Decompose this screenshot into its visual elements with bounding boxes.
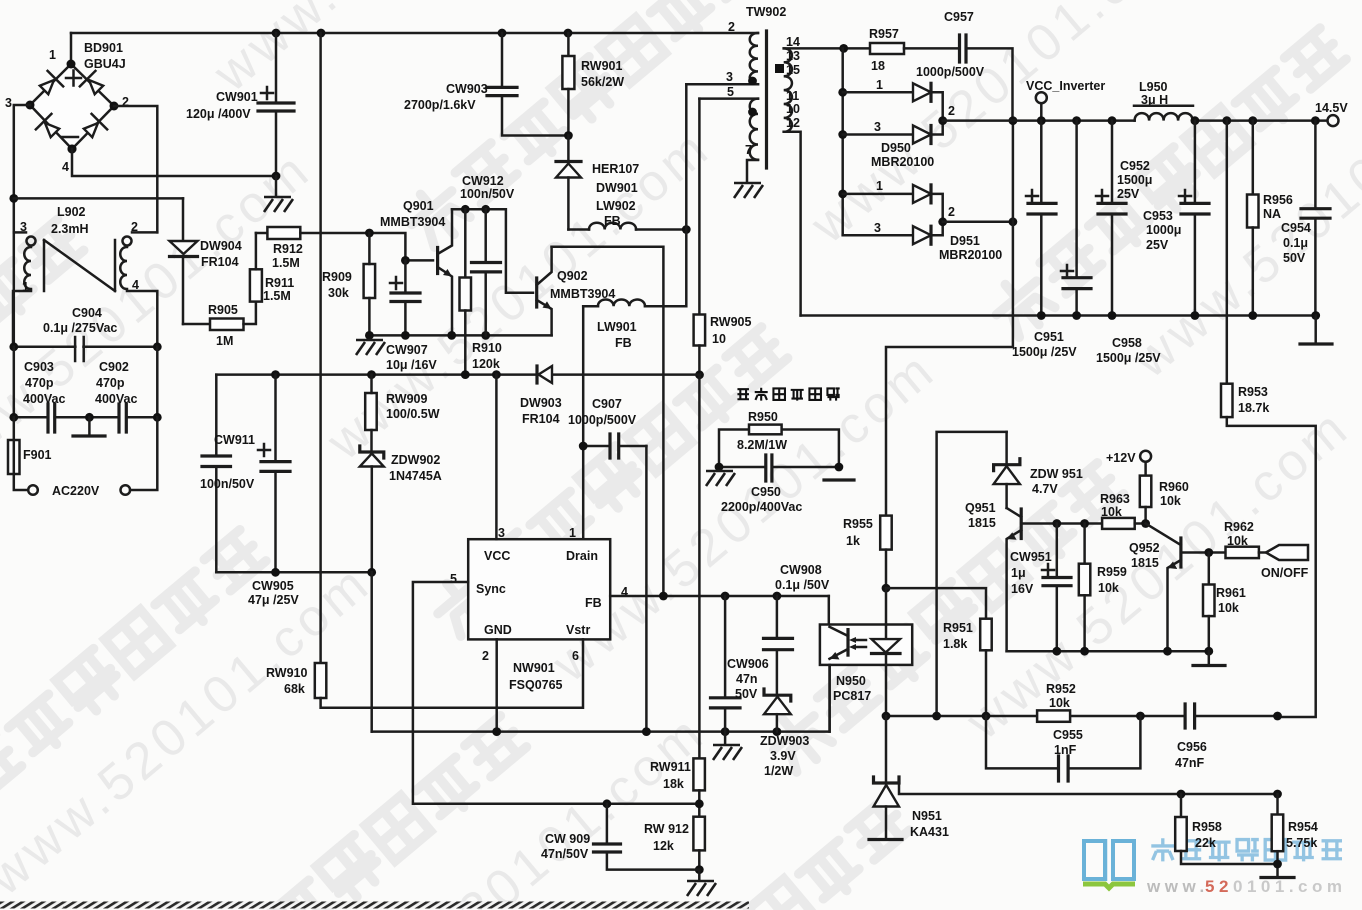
svg-text:Q951: Q951 (965, 501, 996, 515)
svg-text:C953: C953 (1143, 209, 1173, 223)
svg-text:2200p/400Vac: 2200p/400Vac (721, 500, 802, 514)
wire bridge pin2 down (114, 106, 157, 232)
svg-text:R960: R960 (1159, 480, 1189, 494)
optocoupler N950 PC817 (820, 625, 912, 704)
svg-text:LW902: LW902 (596, 199, 636, 213)
capacitor CW909 47n/50V (541, 804, 699, 870)
svg-text:120k: 120k (472, 357, 500, 371)
wire LED anode to R955 (885, 588, 888, 624)
svg-text:R954: R954 (1288, 820, 1318, 834)
node dot gnd row C951 (1037, 311, 1046, 320)
ground C950 right (824, 478, 854, 481)
svg-text:MMBT3904: MMBT3904 (380, 215, 445, 229)
node dot GND row pin2 (492, 727, 501, 736)
resistor RW901 56k/2W (562, 33, 624, 136)
node dot fbrow fbnet (932, 712, 941, 721)
node dot C904 row left (9, 342, 18, 351)
svg-text:ZDW903: ZDW903 (760, 734, 809, 748)
svg-text:CW908: CW908 (780, 563, 822, 577)
svg-text:3: 3 (5, 96, 12, 110)
svg-text:R910: R910 (472, 341, 502, 355)
svg-text:2: 2 (948, 104, 955, 118)
node dot R955 bottom (882, 584, 891, 593)
capacitor C950 2200p/400Vac (719, 455, 839, 514)
svg-text:C952: C952 (1120, 159, 1150, 173)
resistor RW911 18k (650, 375, 705, 817)
svg-text:1N4745A: 1N4745A (389, 469, 442, 483)
svg-text:C956: C956 (1177, 740, 1207, 754)
node dot emitter row R909 (365, 331, 374, 340)
svg-text:R909: R909 (322, 270, 352, 284)
capacitor CW911 100n/50V (200, 375, 255, 573)
svg-text:18: 18 (871, 59, 885, 73)
svg-text:N951: N951 (912, 809, 942, 823)
svg-text:DW901: DW901 (596, 181, 638, 195)
node dot C950 right (835, 463, 844, 472)
node dot R954 bottom (1273, 860, 1282, 869)
wire AC row to DW904 (14, 197, 183, 200)
capacitor CW905 47u/25V (248, 375, 299, 607)
svg-text:Q902: Q902 (557, 269, 588, 283)
connector ON/OFF (1261, 545, 1309, 580)
terminal 14.5V (1315, 101, 1348, 126)
shunt N951 KA431 (869, 716, 949, 840)
svg-text:0101.com: 0101.com (1233, 877, 1347, 896)
zener ZDW951 4.7V (994, 432, 1083, 508)
svg-text:1nF: 1nF (1054, 743, 1077, 757)
svg-text:1/2W: 1/2W (764, 764, 793, 778)
wire CW912 rail (452, 209, 533, 292)
svg-text:C904: C904 (72, 306, 102, 320)
svg-text:RW911: RW911 (650, 760, 691, 774)
svg-text:C903: C903 (24, 360, 54, 374)
node dot row B RW909 (367, 370, 376, 379)
svg-text:6: 6 (572, 649, 579, 663)
svg-text:4: 4 (132, 278, 139, 292)
svg-text:1815: 1815 (968, 516, 996, 530)
svg-text:10k: 10k (1101, 505, 1122, 519)
svg-text:10k: 10k (1218, 601, 1239, 615)
inductor L950 3uH (1134, 80, 1193, 121)
svg-text:5: 5 (450, 572, 457, 586)
diode D950 MBR20100 pin3 (843, 104, 955, 169)
svg-text:MMBT3904: MMBT3904 (550, 287, 615, 301)
svg-text:100n/50V: 100n/50V (200, 477, 255, 491)
svg-text:FB: FB (604, 214, 621, 228)
svg-text:NW901: NW901 (513, 661, 555, 675)
wire drain column (582, 306, 585, 539)
wire startup column B+ to RW910 (319, 33, 322, 663)
wire VCC row B (216, 373, 699, 376)
svg-text:470p: 470p (25, 376, 54, 390)
ground primary bulk (264, 176, 293, 212)
svg-text:1815: 1815 (1131, 556, 1159, 570)
node rail dot startup column (317, 29, 326, 38)
svg-text:FB: FB (615, 336, 632, 350)
svg-text:R958: R958 (1192, 820, 1222, 834)
svg-text:ON/OFF: ON/OFF (1261, 566, 1309, 580)
capacitor CW908 0.1u/50V (764, 563, 830, 695)
svg-text:L950: L950 (1139, 80, 1168, 94)
resistor RW909 100/0.5W (365, 375, 440, 430)
svg-text:50V: 50V (1283, 251, 1306, 265)
svg-text:1μ: 1μ (1011, 566, 1026, 580)
svg-text:8.2M/1W: 8.2M/1W (737, 438, 787, 452)
node dot rail CW912 (481, 205, 490, 214)
capacitor CW907 10u/16V (386, 260, 437, 372)
svg-text:PC817: PC817 (833, 689, 871, 703)
svg-text:ZDW902: ZDW902 (391, 453, 440, 467)
resistor R959 10k (1079, 524, 1127, 652)
svg-text:100/0.5W: 100/0.5W (386, 407, 440, 421)
node dot CW905 bottom (271, 568, 280, 577)
ground R954 (1261, 876, 1294, 879)
node dot emitter row Q901 (447, 331, 456, 340)
svg-text:RW 912: RW 912 (644, 822, 689, 836)
terminal +12V (1106, 451, 1151, 465)
svg-text:R955: R955 (843, 517, 873, 531)
wire Q951 base row (1021, 522, 1102, 525)
diode D950 MBR20100 pin1 (843, 78, 943, 121)
svg-text:22k: 22k (1195, 836, 1216, 850)
svg-text:FR104: FR104 (201, 255, 239, 269)
capacitor CW912 100n/50V (460, 174, 515, 335)
svg-text:D951: D951 (950, 234, 980, 248)
node dot rail R910 (461, 205, 470, 214)
diode DW903 FR104 (520, 366, 562, 426)
resistor R961 10k (1203, 553, 1246, 652)
node dot FB CW906 (721, 592, 730, 601)
svg-text:1000μ: 1000μ (1146, 223, 1181, 237)
terminal AC220V right (121, 417, 158, 495)
svg-text:RW910: RW910 (266, 666, 308, 680)
resistor R951 1.8k (943, 619, 992, 716)
wire output to R955 (886, 121, 1013, 516)
resistor R955 1k (843, 516, 892, 589)
svg-text:400Vac: 400Vac (23, 392, 65, 406)
svg-text:R905: R905 (208, 303, 238, 317)
svg-text:F901: F901 (23, 448, 52, 462)
logo site name (1151, 838, 1342, 861)
wire Sync pin5 (413, 582, 699, 804)
resistor R910 120k (460, 209, 502, 374)
resistor R960 10k (1140, 462, 1189, 524)
wire GND pin2 (495, 639, 498, 731)
resistor R952 10k (1037, 682, 1076, 722)
node dot bus R956 (1248, 116, 1257, 125)
svg-text:L902: L902 (57, 205, 86, 219)
capacitor C958 1500u/25V (1061, 121, 1161, 365)
svg-text:1500μ: 1500μ (1117, 173, 1152, 187)
resistor R953 18.7k (1221, 121, 1316, 717)
svg-text:25V: 25V (1117, 187, 1140, 201)
resistor R962 10k (1224, 520, 1266, 558)
svg-text:50V: 50V (735, 687, 758, 701)
node dot CW909 top (603, 799, 612, 808)
node dot bus C952 (1108, 116, 1117, 125)
svg-text:2.3mH: 2.3mH (51, 222, 89, 236)
svg-text:400Vac: 400Vac (95, 392, 137, 406)
node dot R960 R963 (1141, 519, 1150, 528)
svg-text:Drain: Drain (566, 549, 598, 563)
zener ZDW903 3.9V 1/2W (760, 689, 809, 778)
svg-text:CW903: CW903 (446, 82, 488, 96)
svg-text:R952: R952 (1046, 682, 1076, 696)
fuse F901 (8, 417, 52, 490)
svg-text:10: 10 (786, 102, 800, 116)
wire Vstr pin6 (582, 639, 585, 707)
diode D951 MBR20100 pin1 (843, 179, 943, 222)
svg-text:100n/50V: 100n/50V (460, 187, 515, 201)
svg-text:1k: 1k (846, 534, 860, 548)
svg-text:N950: N950 (836, 674, 866, 688)
wire emitter row (369, 334, 551, 337)
svg-text:+12V: +12V (1106, 451, 1136, 465)
svg-text:3.9V: 3.9V (770, 749, 796, 763)
svg-text:C902: C902 (99, 360, 129, 374)
node dot em row CW951 (1052, 647, 1061, 656)
inductor LW901 FB (583, 300, 645, 350)
svg-text:FB: FB (585, 596, 602, 610)
node dot bus R953 (1222, 116, 1231, 125)
capacitor C954 0.1u/50V (1281, 121, 1330, 316)
svg-text:2700p/1.6kV: 2700p/1.6kV (404, 98, 476, 112)
capacitor CW906 47n/50V (711, 596, 769, 732)
svg-text:CW907: CW907 (386, 343, 428, 357)
node dot GND row ZDW903 (773, 727, 782, 736)
svg-text:R961: R961 (1216, 586, 1246, 600)
wire opto collector to FB row (828, 596, 831, 625)
node dot anode D950-1 (838, 88, 847, 97)
svg-text:7: 7 (745, 143, 752, 157)
svg-text:11: 11 (786, 89, 799, 103)
wire main output bus (943, 119, 1327, 122)
title switching power supply (737, 388, 839, 401)
node dot C907 drain (579, 442, 588, 451)
resistor R957 18 (844, 27, 960, 73)
border hatch bottom (0, 902, 749, 909)
svg-text:2: 2 (948, 205, 955, 219)
node dot snubber bottom (564, 131, 573, 140)
node dot GND row CW906 (721, 727, 730, 736)
node dot base row R959 (1080, 519, 1089, 528)
svg-text:16V: 16V (1011, 582, 1034, 596)
svg-text:14: 14 (786, 35, 800, 49)
resistor R954 5.75k (1272, 794, 1318, 876)
svg-text:CW901: CW901 (216, 90, 258, 104)
wire D951 out to bus column (943, 221, 1013, 224)
svg-text:ZDW 951: ZDW 951 (1030, 467, 1083, 481)
svg-text:Vstr: Vstr (566, 623, 590, 637)
node dot RW905 bottom (695, 370, 704, 379)
wire Q902 collector to FB (552, 247, 664, 596)
svg-text:VCC: VCC (484, 549, 510, 563)
node dot base row R961 (1204, 548, 1213, 557)
svg-text:1.5M: 1.5M (272, 256, 300, 270)
svg-text:AC220V: AC220V (52, 484, 100, 498)
node dot RW912 bottom (695, 865, 704, 874)
resistor R958 22k (1175, 794, 1277, 864)
node dot LW902 right (682, 225, 691, 234)
svg-text:R951: R951 (943, 621, 973, 635)
inductor LW902 FB (568, 199, 686, 230)
capacitor C953 1000u/25V (1143, 121, 1209, 316)
svg-text:1500μ /25V: 1500μ /25V (1096, 351, 1161, 365)
ground C950 left (706, 471, 735, 486)
node dot FB CW908 (773, 592, 782, 601)
node dot anode D951-1 (838, 190, 847, 199)
svg-text:10μ /16V: 10μ /16V (386, 358, 437, 372)
node dot bus column D951 (1009, 217, 1018, 226)
svg-text:1: 1 (569, 526, 576, 540)
node dot fbrow LED (882, 712, 891, 721)
wire TW902 pin3 column to LW901 (645, 84, 686, 306)
node dot row B CW905 (271, 370, 280, 379)
svg-text:MBR20100: MBR20100 (871, 155, 934, 169)
svg-text:47μ /25V: 47μ /25V (248, 593, 299, 607)
svg-text:www.: www. (1146, 877, 1209, 896)
svg-text:56k/2W: 56k/2W (581, 75, 624, 89)
svg-text:Q901: Q901 (403, 199, 434, 213)
wire feedback row R952 (886, 715, 1278, 718)
svg-text:3: 3 (874, 221, 881, 235)
svg-text:10: 10 (712, 332, 726, 346)
svg-text:10k: 10k (1160, 494, 1181, 508)
svg-text:CW 909: CW 909 (545, 832, 590, 846)
svg-text:10k: 10k (1227, 534, 1248, 548)
svg-text:3: 3 (498, 526, 505, 540)
svg-text:R956: R956 (1263, 193, 1293, 207)
node dot emitter row CW912 (481, 331, 490, 340)
node dot sync divider (695, 799, 704, 808)
node dot gnd row R956 (1248, 311, 1257, 320)
node rail dot RW901 (564, 29, 573, 38)
terminal AC220V left (28, 484, 100, 498)
svg-text:18.7k: 18.7k (1238, 401, 1269, 415)
svg-text:C955: C955 (1053, 728, 1083, 742)
svg-text:R911: R911 (265, 276, 294, 290)
wire top B+ rail (71, 32, 758, 35)
resistor RW905 10 (694, 99, 752, 375)
wire base Q901 (369, 233, 433, 260)
svg-text:0.1μ /50V: 0.1μ /50V (775, 578, 830, 592)
svg-text:13: 13 (786, 49, 800, 63)
svg-text:TW902: TW902 (746, 5, 786, 19)
transformer TW902 (686, 5, 843, 316)
svg-text:18k: 18k (663, 777, 684, 791)
svg-text:5.75k: 5.75k (1286, 836, 1317, 850)
node dot gnd row C954 (1311, 311, 1320, 320)
svg-text:R959: R959 (1097, 565, 1127, 579)
svg-text:15: 15 (786, 63, 800, 77)
svg-text:C957: C957 (944, 10, 974, 24)
ground secondary (1300, 316, 1332, 345)
node dot D950 out (938, 116, 947, 125)
node dot row B VCC pin (492, 370, 501, 379)
capacitor C957 1000p/500V (916, 10, 1013, 121)
svg-text:3: 3 (20, 220, 27, 234)
svg-text:CW951: CW951 (1010, 550, 1052, 564)
svg-text:CW912: CW912 (462, 174, 504, 188)
node dot C904 row right (153, 342, 162, 351)
node dot CW901 bottom (272, 172, 281, 181)
diode HER107 DW901 (556, 136, 639, 230)
svg-text:DW904: DW904 (200, 239, 242, 253)
logo book icon (1083, 839, 1135, 888)
capacitor C956 47nF (1175, 704, 1207, 770)
node dot ZDW902 bottom (367, 568, 376, 577)
svg-text:470p: 470p (96, 376, 125, 390)
capacitor C904 0.1u/275Vac (14, 232, 158, 361)
capacitor C907 1000p/500V (568, 397, 646, 732)
ground standby row (1193, 651, 1225, 665)
ground RW912 (687, 870, 716, 896)
ground AC filter mid (73, 417, 105, 436)
node rail dot CW901 (272, 29, 281, 38)
svg-text:CW911: CW911 (214, 433, 255, 447)
wire standby emitter row (1007, 650, 1209, 653)
capacitor CW903 2700p/1.6kV (404, 33, 568, 136)
op-amp U1 NW901 FSQ0765 (450, 526, 628, 692)
svg-text:R950: R950 (748, 410, 778, 424)
svg-text:3: 3 (726, 70, 733, 84)
svg-text:2: 2 (728, 20, 735, 34)
svg-text:Q952: Q952 (1129, 541, 1160, 555)
svg-text:C954: C954 (1281, 221, 1311, 235)
svg-text:1: 1 (49, 48, 56, 62)
svg-text:1000p/500V: 1000p/500V (568, 413, 637, 427)
transistor Q901 MMBT3904 (380, 199, 452, 335)
svg-text:FR104: FR104 (522, 412, 560, 426)
resistor R912 1.5M (256, 227, 370, 270)
node dot fbrow R951 (982, 712, 991, 721)
resistor R963 10k (1100, 492, 1146, 529)
svg-text:47n/50V: 47n/50V (541, 847, 589, 861)
svg-text:RW901: RW901 (581, 59, 623, 73)
svg-text:R912: R912 (273, 242, 303, 256)
svg-text:12k: 12k (653, 839, 674, 853)
node dot fbrow R952-C955 (1136, 712, 1145, 721)
svg-text:1: 1 (876, 179, 883, 193)
wire fb net column to zener (937, 432, 1007, 716)
wire VCC pin3 (495, 375, 498, 540)
wire secondary ground row (801, 314, 1316, 317)
capacitor C951 1500u/25V (1012, 121, 1077, 359)
svg-text:Sync: Sync (476, 582, 506, 596)
svg-text:R962: R962 (1224, 520, 1254, 534)
node dot fbrow R954 (1273, 712, 1282, 721)
wire bridge pin4 to CW901 bottom (72, 149, 276, 176)
svg-text:1: 1 (22, 280, 29, 294)
wire rectifier anode column (841, 48, 844, 235)
svg-text:4: 4 (62, 160, 69, 174)
capacitor C903 470p/400Vac (14, 347, 90, 432)
svg-text:C950: C950 (751, 485, 781, 499)
svg-text:30k: 30k (328, 286, 349, 300)
svg-text:12: 12 (786, 116, 800, 130)
wire source GND row (372, 665, 830, 732)
node dot base row CW951 (1052, 519, 1061, 528)
svg-text:KA431: KA431 (910, 825, 949, 839)
ground GND row (713, 732, 742, 760)
capacitor C952 1500u/25V (1096, 121, 1152, 316)
node dot GND row C907 (642, 727, 651, 736)
svg-text:R963: R963 (1100, 492, 1130, 506)
svg-text:52: 52 (1205, 877, 1233, 896)
terminal VCC_Inverter (1026, 79, 1105, 121)
svg-text:14.5V: 14.5V (1315, 101, 1348, 115)
svg-text:4.7V: 4.7V (1032, 482, 1058, 496)
